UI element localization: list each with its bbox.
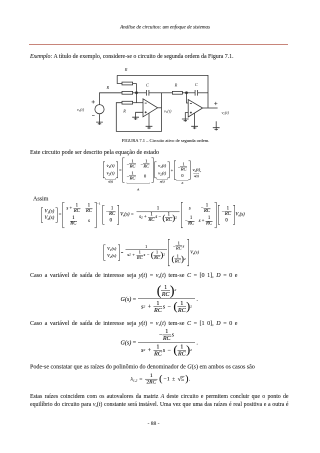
exemplo line: [30, 53, 234, 60]
caso v1: [30, 320, 237, 328]
node B vertical to U2 input: [187, 93, 189, 103]
este circuito: [30, 149, 159, 157]
wire C2 to output vertical: [198, 92, 208, 94]
op-amp U1: [143, 99, 158, 117]
output + sign: [214, 102, 217, 105]
resistor R2: [172, 91, 182, 94]
wire top R left lead: [117, 75, 122, 83]
wire third row to op1 input: [133, 102, 143, 104]
svg-text:C: C: [195, 82, 198, 87]
red rule: [29, 43, 288, 46]
wire source bottom: [99, 114, 101, 122]
ground (U1 plus input): [132, 117, 139, 120]
CIRCUIT SVG: [60, 63, 260, 140]
capacitor C2: [195, 90, 198, 96]
floating ground (output reference): [215, 121, 217, 127]
EQ1: [103, 158, 201, 183]
svg-text:v1(t): v1(t): [164, 108, 172, 114]
G2: [121, 328, 198, 358]
top feedback wire: [117, 75, 208, 107]
svg-text:R: R: [124, 67, 128, 72]
source - sign: [92, 114, 95, 116]
ground (U1 bottom): [146, 126, 153, 129]
op-amp U2: [188, 100, 202, 117]
svg-text:vs(t): vs(t): [77, 107, 85, 113]
U1 plus input wire: [136, 112, 143, 117]
capacitor C1: [146, 90, 149, 96]
EQ3: [104, 239, 199, 266]
pode-se: [30, 363, 255, 371]
wire R to node: [133, 92, 147, 94]
U2 plus sign: [190, 112, 192, 114]
G1: [121, 284, 198, 314]
U2 bottom pin wire: [194, 113, 196, 126]
svg-text:R: R: [106, 85, 110, 90]
wire C1 to output vertical: [149, 92, 162, 94]
node A dot: [136, 92, 138, 94]
wire bottom loop: [116, 93, 161, 132]
wire source top: [100, 93, 123, 105]
ground (source): [96, 122, 103, 125]
page number: [148, 421, 160, 427]
U1 plus sign: [145, 111, 147, 113]
U1 output wire: [158, 107, 162, 109]
U2 minus sign: [190, 102, 192, 104]
lambda: [131, 373, 191, 385]
final paragraph: [30, 393, 289, 419]
resistor R input: [122, 91, 133, 94]
U1 minus sign: [145, 102, 147, 104]
resistor R op1 feedback: [122, 101, 133, 104]
ground (U2 plus input): [182, 119, 189, 122]
resistor R top feedback: [122, 82, 133, 85]
EQ2: [41, 202, 245, 228]
source vs: [95, 105, 104, 114]
source + sign: [92, 100, 95, 103]
wire top R right lead + node vertical: [133, 84, 137, 103]
svg-text:v2(t): v2(t): [222, 110, 230, 116]
wire v1 to R2: [162, 92, 173, 94]
ground (U2 bottom): [191, 126, 198, 129]
svg-text:R: R: [122, 109, 126, 114]
caption: [122, 138, 210, 143]
caso v2: [30, 272, 237, 280]
U2 plus input wire: [185, 113, 188, 119]
wire R2 to node B: [182, 92, 195, 94]
svg-text:R: R: [174, 83, 178, 88]
Assim: [33, 195, 48, 203]
U1 bottom pin wire: [148, 113, 150, 126]
node B dot: [186, 92, 188, 94]
svg-text:C: C: [146, 83, 149, 88]
U2 output wire: [203, 107, 218, 109]
header: [120, 25, 210, 31]
